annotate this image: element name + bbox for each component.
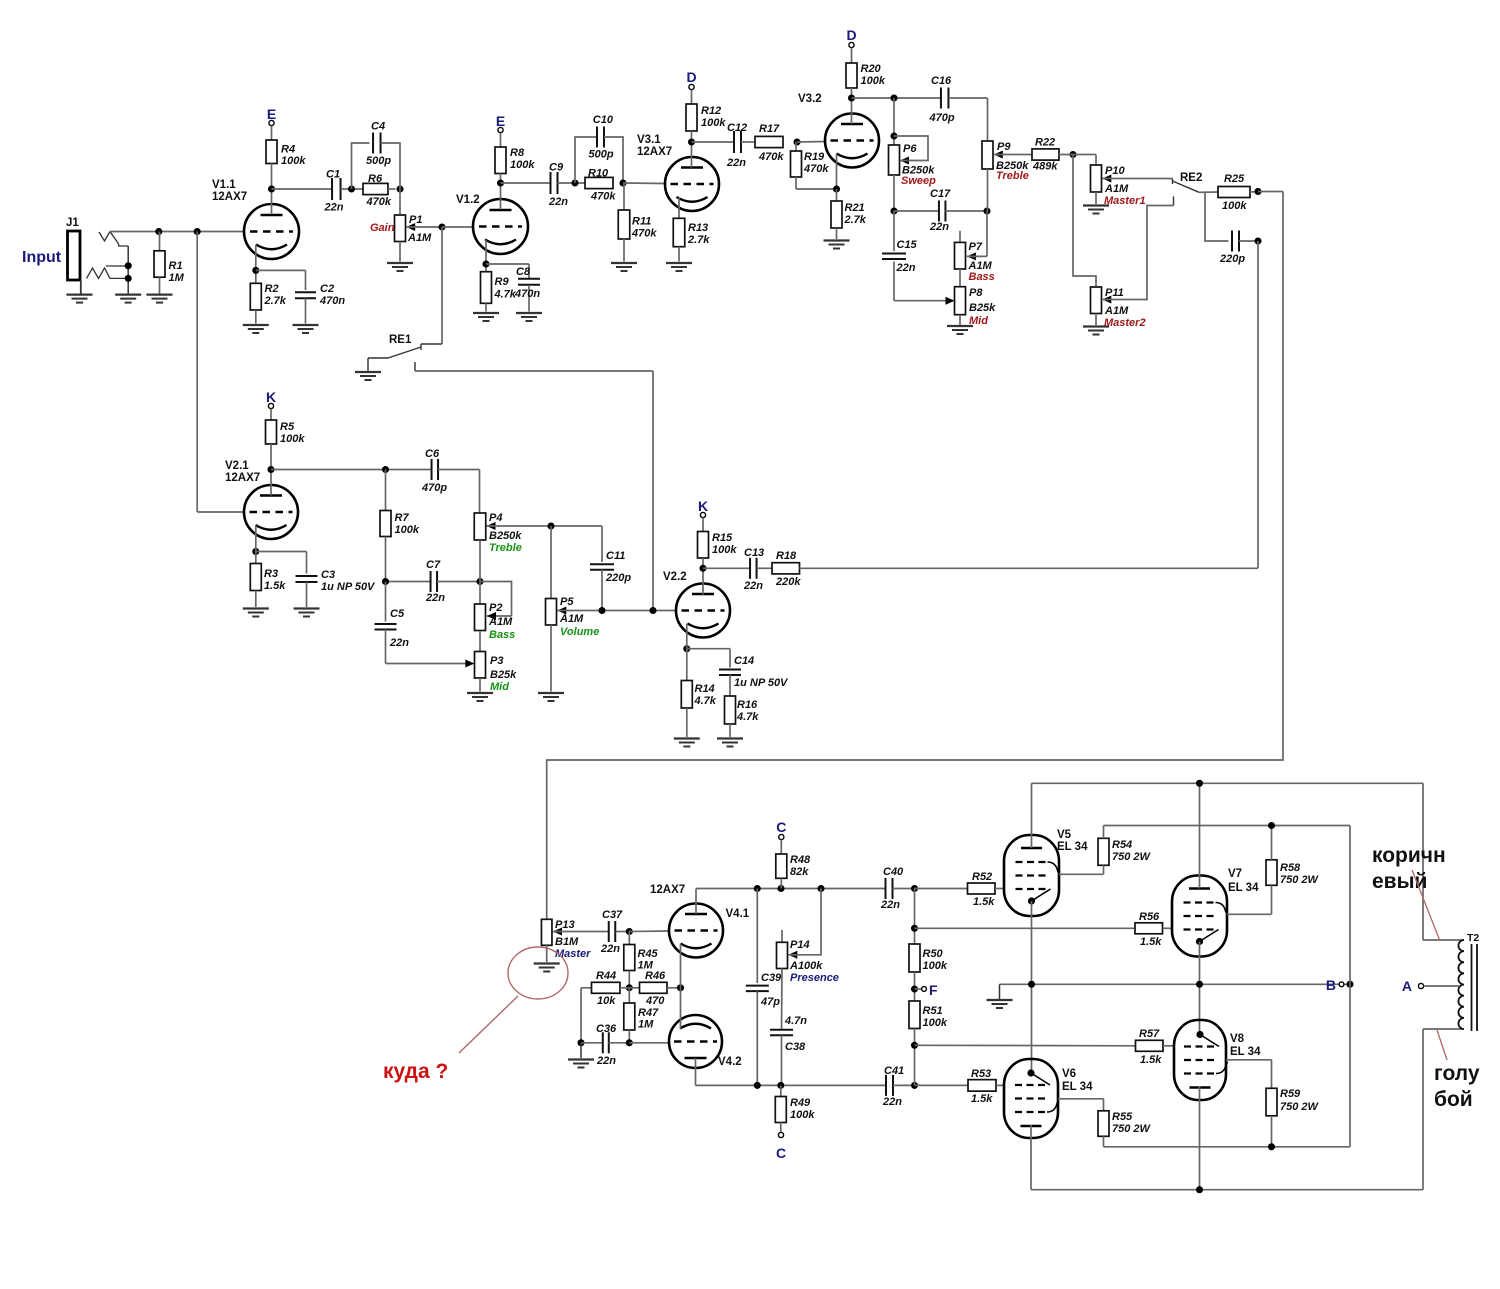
V5 cathode lead — [1031, 901, 1033, 1071]
svg-text:R3: R3 — [264, 568, 278, 580]
V6 plate lead — [1030, 1125, 1032, 1190]
potentiometer P11 Master2 — [1091, 287, 1102, 314]
svg-text:1.5k: 1.5k — [264, 580, 286, 592]
terminal D node V3.2 — [849, 42, 854, 47]
node R51 bottom — [911, 1042, 918, 1049]
terminal E node V1.1 — [269, 120, 274, 125]
svg-text:R44: R44 — [596, 970, 616, 982]
V5 plate lead — [1031, 783, 1033, 848]
svg-text:1.5k: 1.5k — [971, 1093, 993, 1105]
RE1 blade — [388, 347, 421, 358]
resistor R47 — [628, 988, 630, 1003]
svg-text:22n: 22n — [726, 157, 746, 169]
V4.1 cathode lead — [680, 944, 682, 988]
ground at J1 — [67, 294, 93, 296]
resistor R58 — [1266, 860, 1277, 886]
node R6 right — [396, 185, 403, 192]
capacitor C6 — [431, 459, 433, 480]
node V8 plate bottom — [1196, 1186, 1203, 1193]
node V2.1 cathode — [252, 548, 259, 555]
svg-text:100k: 100k — [510, 159, 535, 171]
svg-text:4.7k: 4.7k — [694, 695, 717, 707]
svg-text:R17: R17 — [759, 123, 780, 135]
ground at P1 — [387, 262, 413, 264]
node R58 top — [1268, 822, 1275, 829]
svg-text:D: D — [686, 69, 696, 85]
svg-text:12AX7: 12AX7 — [650, 884, 685, 896]
svg-text:R54: R54 — [1112, 839, 1132, 851]
svg-text:P6: P6 — [903, 143, 917, 155]
node P5 top — [547, 522, 554, 529]
capacitor C36 — [581, 1042, 603, 1044]
svg-text:R18: R18 — [776, 550, 797, 562]
ground at R21 — [824, 239, 850, 241]
V4.2 cathode lead — [680, 988, 682, 1029]
terminal B — [1339, 982, 1344, 987]
input jack J1 — [68, 231, 81, 280]
svg-text:22n: 22n — [389, 637, 409, 649]
capacitor C40 — [885, 878, 887, 899]
svg-text:2.7k: 2.7k — [687, 234, 710, 246]
ground at cathode rail — [999, 984, 1001, 999]
svg-text:V4.2: V4.2 — [718, 1056, 742, 1068]
svg-text:B1M: B1M — [555, 936, 579, 948]
svg-text:P4: P4 — [489, 512, 502, 524]
svg-text:100k: 100k — [1222, 200, 1247, 212]
capacitor C15 — [893, 211, 895, 251]
svg-text:A1M: A1M — [1104, 183, 1129, 195]
svg-text:82k: 82k — [790, 866, 809, 878]
ground at R9 — [473, 312, 499, 314]
ground at R16 — [717, 737, 743, 739]
node C36 left — [577, 1039, 584, 1046]
red pointer blue — [1437, 1030, 1447, 1060]
svg-text:R25: R25 — [1224, 173, 1245, 185]
divider chain — [914, 889, 916, 945]
svg-text:Master2: Master2 — [1104, 317, 1146, 329]
svg-text:R20: R20 — [861, 63, 882, 75]
potentiometer P10 Master1 — [1095, 155, 1097, 166]
capacitor C3 — [256, 551, 307, 553]
resistor R14 — [681, 681, 692, 709]
svg-text:100k: 100k — [923, 1017, 948, 1029]
svg-text:R8: R8 — [510, 147, 525, 159]
svg-text:E: E — [267, 106, 276, 122]
svg-text:R45: R45 — [638, 948, 659, 960]
svg-text:22n: 22n — [896, 262, 916, 274]
svg-text:P1: P1 — [409, 214, 422, 226]
resistor R54 — [1098, 838, 1109, 865]
V7 screen wire — [1227, 913, 1272, 915]
svg-text:C1: C1 — [326, 169, 340, 181]
node P6 bottom — [890, 207, 897, 214]
resistor R52 — [915, 888, 968, 890]
svg-text:V4.1: V4.1 — [726, 908, 750, 920]
capacitor C37 — [608, 921, 610, 942]
svg-text:R12: R12 — [701, 105, 721, 117]
svg-text:B: B — [1326, 977, 1336, 993]
capacitor C12 — [692, 141, 735, 143]
resistor R10 — [585, 177, 613, 188]
tube V1.1 — [244, 204, 299, 259]
svg-text:V1.2: V1.2 — [456, 194, 480, 206]
svg-text:4.7k: 4.7k — [494, 289, 517, 301]
svg-text:A1M: A1M — [488, 616, 513, 628]
ground at R11 — [611, 262, 637, 264]
svg-text:C8: C8 — [516, 266, 531, 278]
svg-text:220p: 220p — [605, 572, 631, 584]
svg-text:100k: 100k — [712, 544, 737, 556]
node V7 V8 cathode — [1196, 981, 1203, 988]
ground at R14 — [674, 737, 700, 739]
potentiometer P14 Presence — [781, 930, 783, 942]
svg-text:C12: C12 — [727, 122, 747, 134]
resistor R17 — [755, 136, 783, 147]
resistor R20 — [851, 48, 853, 63]
tube V8 EL34 — [1174, 1020, 1226, 1100]
resistor R44 — [581, 987, 592, 989]
terminal F — [911, 985, 918, 992]
svg-text:470k: 470k — [590, 191, 616, 203]
wire J1 to V1.1 grid — [110, 231, 244, 233]
svg-text:470k: 470k — [631, 228, 657, 240]
wire RE1 to V2.2 grid — [415, 370, 653, 372]
V7 plate lead — [1199, 783, 1201, 888]
svg-text:C7: C7 — [426, 559, 441, 571]
svg-text:C14: C14 — [734, 655, 754, 667]
svg-text:C39: C39 — [761, 972, 782, 984]
svg-text:1u NP 50V: 1u NP 50V — [321, 581, 376, 593]
svg-text:489k: 489k — [1032, 161, 1058, 173]
wire C16 to P9 — [987, 98, 989, 141]
ground at P5 — [538, 692, 564, 694]
svg-text:коричн: коричн — [1372, 844, 1446, 867]
svg-text:голу: голу — [1434, 1062, 1480, 1085]
svg-text:V8: V8 — [1230, 1033, 1245, 1045]
node C36 right — [626, 1039, 633, 1046]
svg-text:22n: 22n — [929, 221, 949, 233]
svg-text:RE1: RE1 — [389, 334, 412, 346]
svg-text:R19: R19 — [804, 151, 825, 163]
node V1.1 plate — [268, 185, 275, 192]
svg-text:Mid: Mid — [490, 681, 509, 693]
wire R44 to C36 — [580, 988, 582, 1043]
node P6 branch — [890, 94, 897, 101]
resistor R50 — [909, 944, 920, 972]
capacitor C9 — [501, 182, 551, 184]
resistor R11 — [623, 183, 625, 210]
wire RE2 to P11 wiper — [1103, 206, 1174, 300]
svg-text:RE2: RE2 — [1180, 172, 1202, 184]
svg-text:A1M: A1M — [407, 232, 432, 244]
node C39 bottom — [754, 1082, 761, 1089]
svg-text:C2: C2 — [320, 283, 334, 295]
jack ring switch contact — [87, 268, 111, 278]
svg-text:100k: 100k — [701, 117, 726, 129]
tube V1.2 — [473, 199, 528, 254]
capacitor C2 — [256, 269, 306, 271]
svg-text:Sweep: Sweep — [901, 175, 936, 187]
capacitor C38 — [770, 1029, 793, 1031]
terminal A — [1418, 983, 1423, 988]
svg-text:22n: 22n — [880, 899, 900, 911]
svg-text:R1: R1 — [169, 260, 183, 272]
svg-text:R10: R10 — [588, 168, 609, 180]
svg-text:E: E — [496, 113, 505, 129]
node bias divider — [626, 984, 633, 991]
svg-text:V1.1: V1.1 — [212, 179, 236, 191]
A tap wire — [1424, 985, 1459, 987]
ground at C3 — [294, 607, 320, 609]
svg-text:P5: P5 — [560, 596, 574, 608]
tube V3.2 — [825, 114, 879, 168]
svg-text:T2: T2 — [1467, 932, 1479, 944]
svg-text:C17: C17 — [930, 188, 951, 200]
ground at P8 — [947, 325, 973, 327]
V5 screen wire — [1059, 873, 1104, 875]
svg-text:P10: P10 — [1105, 165, 1125, 177]
jack tip switch contact — [99, 232, 110, 242]
capacitor C5 — [385, 582, 387, 622]
svg-text:Bass: Bass — [489, 629, 515, 641]
V4.1 plate lead — [695, 889, 697, 915]
terminal E node V1.2 — [498, 127, 503, 132]
svg-text:470k: 470k — [803, 163, 829, 175]
svg-text:P9: P9 — [997, 141, 1011, 153]
ground at P13 — [534, 962, 560, 964]
potentiometer P1 — [399, 189, 401, 215]
svg-text:V5: V5 — [1057, 829, 1072, 841]
node C9-R10 — [571, 179, 578, 186]
capacitor C14 — [687, 648, 730, 650]
resistor R4 — [271, 126, 273, 140]
svg-text:220p: 220p — [1219, 253, 1245, 265]
svg-text:EL 34: EL 34 — [1062, 1081, 1093, 1093]
ground at R3 — [243, 607, 269, 609]
svg-text:P8: P8 — [969, 287, 983, 299]
svg-text:куда ?: куда ? — [383, 1060, 448, 1083]
T2 core — [1471, 944, 1473, 1031]
svg-text:бой: бой — [1434, 1088, 1473, 1111]
svg-text:A100k: A100k — [789, 960, 823, 972]
svg-text:100k: 100k — [281, 155, 306, 167]
svg-text:C11: C11 — [606, 550, 625, 562]
svg-text:C: C — [776, 1145, 786, 1161]
svg-text:Presence: Presence — [790, 972, 839, 984]
svg-text:1M: 1M — [169, 272, 185, 284]
bottom rail output stage — [1031, 1189, 1423, 1191]
annotation red line — [459, 996, 518, 1053]
potentiometer P9 Treble — [982, 141, 993, 169]
svg-text:R14: R14 — [695, 683, 715, 695]
svg-text:R2: R2 — [265, 283, 279, 295]
svg-text:C5: C5 — [390, 608, 405, 620]
svg-text:470n: 470n — [319, 295, 345, 307]
svg-text:R55: R55 — [1112, 1111, 1133, 1123]
resistor R21 — [836, 189, 838, 201]
svg-text:F: F — [929, 982, 938, 998]
svg-text:Input: Input — [22, 249, 62, 266]
node C41 right — [911, 1082, 918, 1089]
wire to V4.2 grid — [629, 1042, 669, 1044]
svg-text:B25k: B25k — [490, 669, 517, 681]
svg-text:22n: 22n — [596, 1055, 616, 1067]
svg-text:750 2W: 750 2W — [1112, 851, 1152, 863]
potentiometer P6 Sweep — [893, 98, 895, 145]
capacitor C4 bypass — [352, 143, 370, 189]
svg-text:P11: P11 — [1105, 287, 1124, 299]
node V7 plate — [1196, 780, 1203, 787]
capacitor C16 — [940, 88, 942, 109]
wire to V3.1 grid — [623, 182, 665, 185]
wire R22 node to P11 — [1073, 155, 1096, 288]
svg-text:1M: 1M — [638, 1019, 654, 1031]
capacitor C11 — [601, 526, 603, 562]
svg-text:4.7n: 4.7n — [784, 1015, 807, 1027]
svg-text:A1M: A1M — [1104, 305, 1129, 317]
svg-text:1.5k: 1.5k — [973, 896, 995, 908]
svg-text:C40: C40 — [883, 866, 904, 878]
top rail output stage — [1032, 782, 1424, 784]
svg-text:100k: 100k — [790, 1109, 815, 1121]
svg-text:Master: Master — [555, 948, 591, 960]
node C7 left — [382, 578, 389, 585]
svg-text:500p: 500p — [366, 155, 391, 167]
svg-text:22n: 22n — [600, 943, 620, 955]
screen bottom rail R55 R59 — [1104, 1146, 1351, 1148]
svg-text:C41: C41 — [884, 1065, 904, 1077]
node R25 right — [1254, 188, 1261, 195]
node R17 right — [793, 138, 800, 145]
node C39 top — [754, 885, 761, 892]
T2 winding — [1458, 940, 1464, 1029]
svg-text:C38: C38 — [785, 1041, 806, 1053]
node C38 bottom R49 — [777, 1082, 784, 1089]
terminal C bottom — [778, 1132, 783, 1137]
ground at P11 — [1083, 325, 1109, 327]
svg-text:C13: C13 — [744, 547, 764, 559]
RE2 lower contact — [1173, 196, 1175, 205]
capacitor C1 — [272, 188, 333, 190]
V7 V8 cathode lead — [1199, 942, 1201, 1033]
svg-text:100k: 100k — [395, 524, 420, 536]
node RE1 line joins — [649, 607, 656, 614]
node C11 bottom — [598, 607, 605, 614]
resistor R57 — [915, 1044, 1136, 1047]
svg-text:10k: 10k — [597, 995, 616, 1007]
svg-text:A1M: A1M — [559, 613, 584, 625]
resistor R15 — [702, 518, 704, 532]
resistor R53 — [915, 1084, 969, 1086]
svg-text:B25k: B25k — [969, 302, 996, 314]
node R22 right — [1069, 151, 1076, 158]
V6 screen wire — [1058, 1098, 1104, 1100]
resistor R56 — [915, 927, 1136, 929]
svg-text:Treble: Treble — [489, 542, 522, 554]
svg-text:47p: 47p — [760, 996, 780, 1008]
tube V3.1 — [665, 157, 719, 211]
svg-text:V2.2: V2.2 — [663, 571, 687, 583]
V3.2 cathode lead — [836, 154, 838, 190]
svg-text:R49: R49 — [790, 1097, 811, 1109]
svg-text:C6: C6 — [425, 448, 440, 460]
ground at P3 — [467, 692, 493, 694]
svg-text:C36: C36 — [596, 1023, 617, 1035]
node R10 right — [619, 179, 626, 186]
resistor R3 — [250, 564, 261, 591]
V8 screen wire — [1226, 1059, 1272, 1061]
potentiometer P13 Master — [541, 919, 552, 945]
wire to V4.1 grid — [629, 930, 669, 933]
node P1 wiper — [438, 223, 445, 230]
node C17 right — [983, 207, 990, 214]
red pointer brown — [1412, 870, 1440, 941]
svg-text:V6: V6 — [1062, 1068, 1076, 1080]
svg-text:Gain: Gain — [370, 222, 395, 234]
node V3.1 plate — [688, 138, 695, 145]
screen rail R54 R58 — [1104, 825, 1351, 827]
RE2 blade — [1173, 181, 1200, 192]
svg-text:1.5k: 1.5k — [1140, 936, 1162, 948]
node R7 top — [382, 466, 389, 473]
svg-text:R15: R15 — [712, 532, 733, 544]
svg-text:22n: 22n — [882, 1096, 902, 1108]
svg-text:R53: R53 — [971, 1068, 991, 1080]
capacitor C17 — [894, 210, 940, 212]
resistor R7 — [385, 470, 387, 511]
svg-text:750 2W: 750 2W — [1280, 1101, 1320, 1113]
svg-text:R5: R5 — [280, 421, 295, 433]
svg-text:D: D — [846, 27, 856, 43]
potentiometer P5 Volume — [550, 526, 552, 599]
wire feedback from R18 — [1257, 241, 1259, 568]
resistor R59 — [1271, 1060, 1273, 1089]
resistor R9 — [485, 240, 487, 272]
svg-text:V2.1: V2.1 — [225, 460, 249, 472]
resistor R19 — [795, 142, 797, 151]
node V1.2 cathode — [482, 260, 489, 267]
resistor R48 — [780, 840, 782, 854]
svg-text:22n: 22n — [324, 202, 344, 214]
transformer T2 — [1422, 783, 1424, 940]
svg-text:K: K — [266, 389, 276, 405]
capacitor C10 bypass — [575, 137, 597, 183]
ground at P10 — [1083, 204, 1109, 206]
capacitor 220p — [1205, 192, 1229, 241]
tube V6 EL34 — [1004, 1059, 1058, 1138]
resistor R55 — [1103, 1099, 1105, 1111]
svg-text:R56: R56 — [1139, 911, 1160, 923]
node V5 V6 cathode — [1028, 981, 1035, 988]
svg-text:V3.2: V3.2 — [798, 93, 822, 105]
svg-text:12AX7: 12AX7 — [212, 191, 247, 203]
node C7 right P4 bottom — [476, 578, 483, 585]
svg-text:V3.1: V3.1 — [637, 134, 661, 146]
svg-text:V7: V7 — [1228, 868, 1242, 880]
svg-text:470: 470 — [645, 995, 665, 1007]
RE1 lower contact — [414, 362, 416, 371]
svg-text:12AX7: 12AX7 — [225, 472, 260, 484]
resistor R6 — [363, 183, 388, 194]
svg-text:C9: C9 — [549, 162, 564, 174]
node V3.2 cathode — [833, 185, 840, 192]
svg-text:R46: R46 — [645, 970, 666, 982]
node C37 right — [626, 928, 633, 935]
svg-text:R16: R16 — [737, 699, 758, 711]
node R48 bottom — [777, 885, 784, 892]
svg-text:EL 34: EL 34 — [1230, 1046, 1261, 1058]
svg-text:A: A — [1402, 978, 1412, 994]
